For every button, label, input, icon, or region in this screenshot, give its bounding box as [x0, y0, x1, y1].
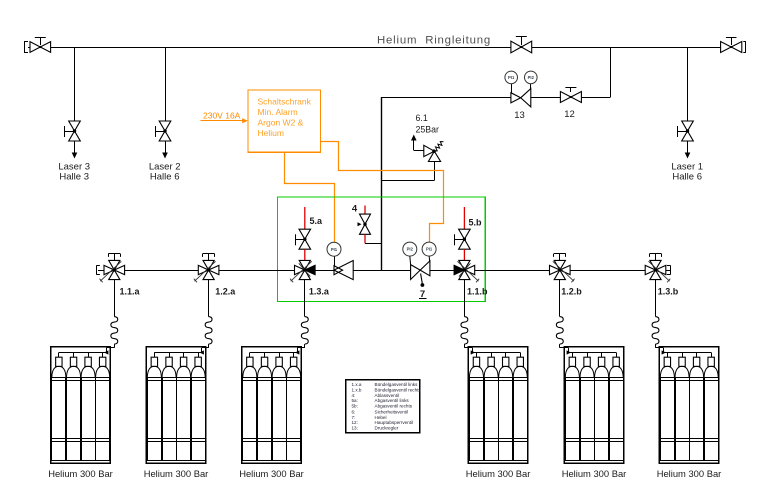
- svg-text:PI2: PI2: [528, 75, 535, 80]
- svg-text:6:: 6:: [352, 409, 356, 414]
- svg-text:1.1.a: 1.1.a: [120, 287, 141, 297]
- svg-text:Hebel: Hebel: [375, 415, 387, 420]
- svg-text:Helium 300 Bar: Helium 300 Bar: [48, 468, 113, 479]
- svg-text:PI1: PI1: [331, 247, 338, 252]
- svg-text:Helium: Helium: [258, 128, 284, 138]
- svg-text:PI1: PI1: [508, 75, 515, 80]
- svg-text:1.x.a: 1.x.a: [352, 382, 362, 387]
- svg-text:13:: 13:: [352, 425, 358, 430]
- svg-text:Helium Ringleitung: Helium Ringleitung: [377, 35, 491, 47]
- svg-text:4:: 4:: [352, 393, 356, 398]
- svg-text:Halle 6: Halle 6: [150, 172, 180, 183]
- svg-text:12: 12: [564, 109, 575, 120]
- svg-text:Halle 3: Halle 3: [59, 172, 89, 183]
- svg-text:1.2.b: 1.2.b: [561, 287, 582, 297]
- svg-text:5.a: 5.a: [310, 216, 324, 226]
- svg-text:Helium 300 Bar: Helium 300 Bar: [239, 468, 304, 479]
- svg-text:5.b: 5.b: [469, 218, 483, 228]
- svg-text:7:: 7:: [352, 415, 356, 420]
- svg-text:Argon W2 &: Argon W2 &: [258, 118, 304, 128]
- svg-text:5b:: 5b:: [352, 403, 358, 408]
- svg-text:1.2.a: 1.2.a: [215, 287, 236, 297]
- svg-text:Helium 300 Bar: Helium 300 Bar: [657, 468, 722, 479]
- svg-text:Ablassventil: Ablassventil: [375, 393, 400, 398]
- svg-text:13: 13: [514, 110, 525, 121]
- svg-text:Min. Alarm: Min. Alarm: [258, 107, 298, 117]
- svg-text:Druckregler: Druckregler: [375, 425, 399, 430]
- svg-text:Helium 300 Bar: Helium 300 Bar: [562, 468, 627, 479]
- svg-text:1.1.b: 1.1.b: [467, 287, 488, 297]
- svg-text:PI2: PI2: [407, 247, 414, 252]
- svg-text:25Bar: 25Bar: [416, 124, 440, 134]
- svg-text:PI1: PI1: [426, 247, 433, 252]
- svg-text:Abgasventil rechts: Abgasventil rechts: [375, 403, 413, 408]
- svg-text:230V 16A: 230V 16A: [203, 110, 241, 120]
- svg-text:Halle 6: Halle 6: [672, 172, 702, 183]
- svg-text:4: 4: [352, 203, 358, 214]
- svg-text:Sicherheitsventil: Sicherheitsventil: [375, 409, 408, 414]
- svg-text:6.1: 6.1: [416, 113, 428, 123]
- svg-text:1.3.b: 1.3.b: [658, 287, 679, 297]
- svg-text:Helium 300 Bar: Helium 300 Bar: [466, 468, 531, 479]
- svg-text:Helium 300 Bar: Helium 300 Bar: [144, 468, 209, 479]
- svg-text:Bündelgasventil links: Bündelgasventil links: [375, 382, 419, 387]
- svg-text:Schaltschrank: Schaltschrank: [258, 96, 312, 106]
- svg-text:1.3.a: 1.3.a: [309, 287, 330, 297]
- svg-text:Bündelgasventil rechts: Bündelgasventil rechts: [375, 387, 422, 392]
- svg-text:1.x.b: 1.x.b: [352, 387, 362, 392]
